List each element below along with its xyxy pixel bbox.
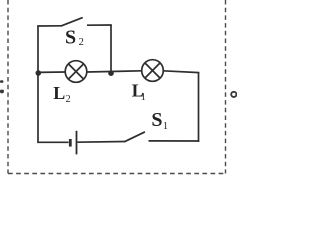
svg-text:2: 2 [79,37,84,48]
svg-text:1: 1 [141,92,146,103]
battery long plate (+) [76,131,78,155]
wire right side of S2 branch [110,25,112,73]
wire top-left of S2 branch [37,25,61,27]
node B (right junction) [108,70,114,76]
svg-text:S: S [151,109,162,131]
wire top-right of S2 branch [87,24,112,26]
wire battery to bottom-left corner [37,141,68,143]
wire S1 pivot to battery [78,141,126,144]
edge mark left upper [0,80,3,83]
svg-text:1: 1 [163,121,168,132]
switch S2 lever [62,18,83,26]
node A (left junction) [36,70,42,76]
wire left vertical [37,26,39,142]
battery short plate (-) [69,139,72,147]
svg-text:2: 2 [66,94,71,105]
wire L1 to right corner [163,71,199,73]
wire bottom right to S1 [149,140,200,142]
wire right vertical [198,72,200,142]
lamp L2 [65,61,87,83]
wire node A to L2 [38,71,65,73]
switch S1 lever [125,132,144,141]
border frame (dashed) [8,0,226,174]
wire L2 to L1 [87,71,142,72]
lamp L1 [142,60,164,82]
edge glyph o (right) [231,92,236,97]
svg-text:L: L [53,83,65,103]
edge mark left lower [0,90,4,94]
svg-text:S: S [65,27,76,49]
